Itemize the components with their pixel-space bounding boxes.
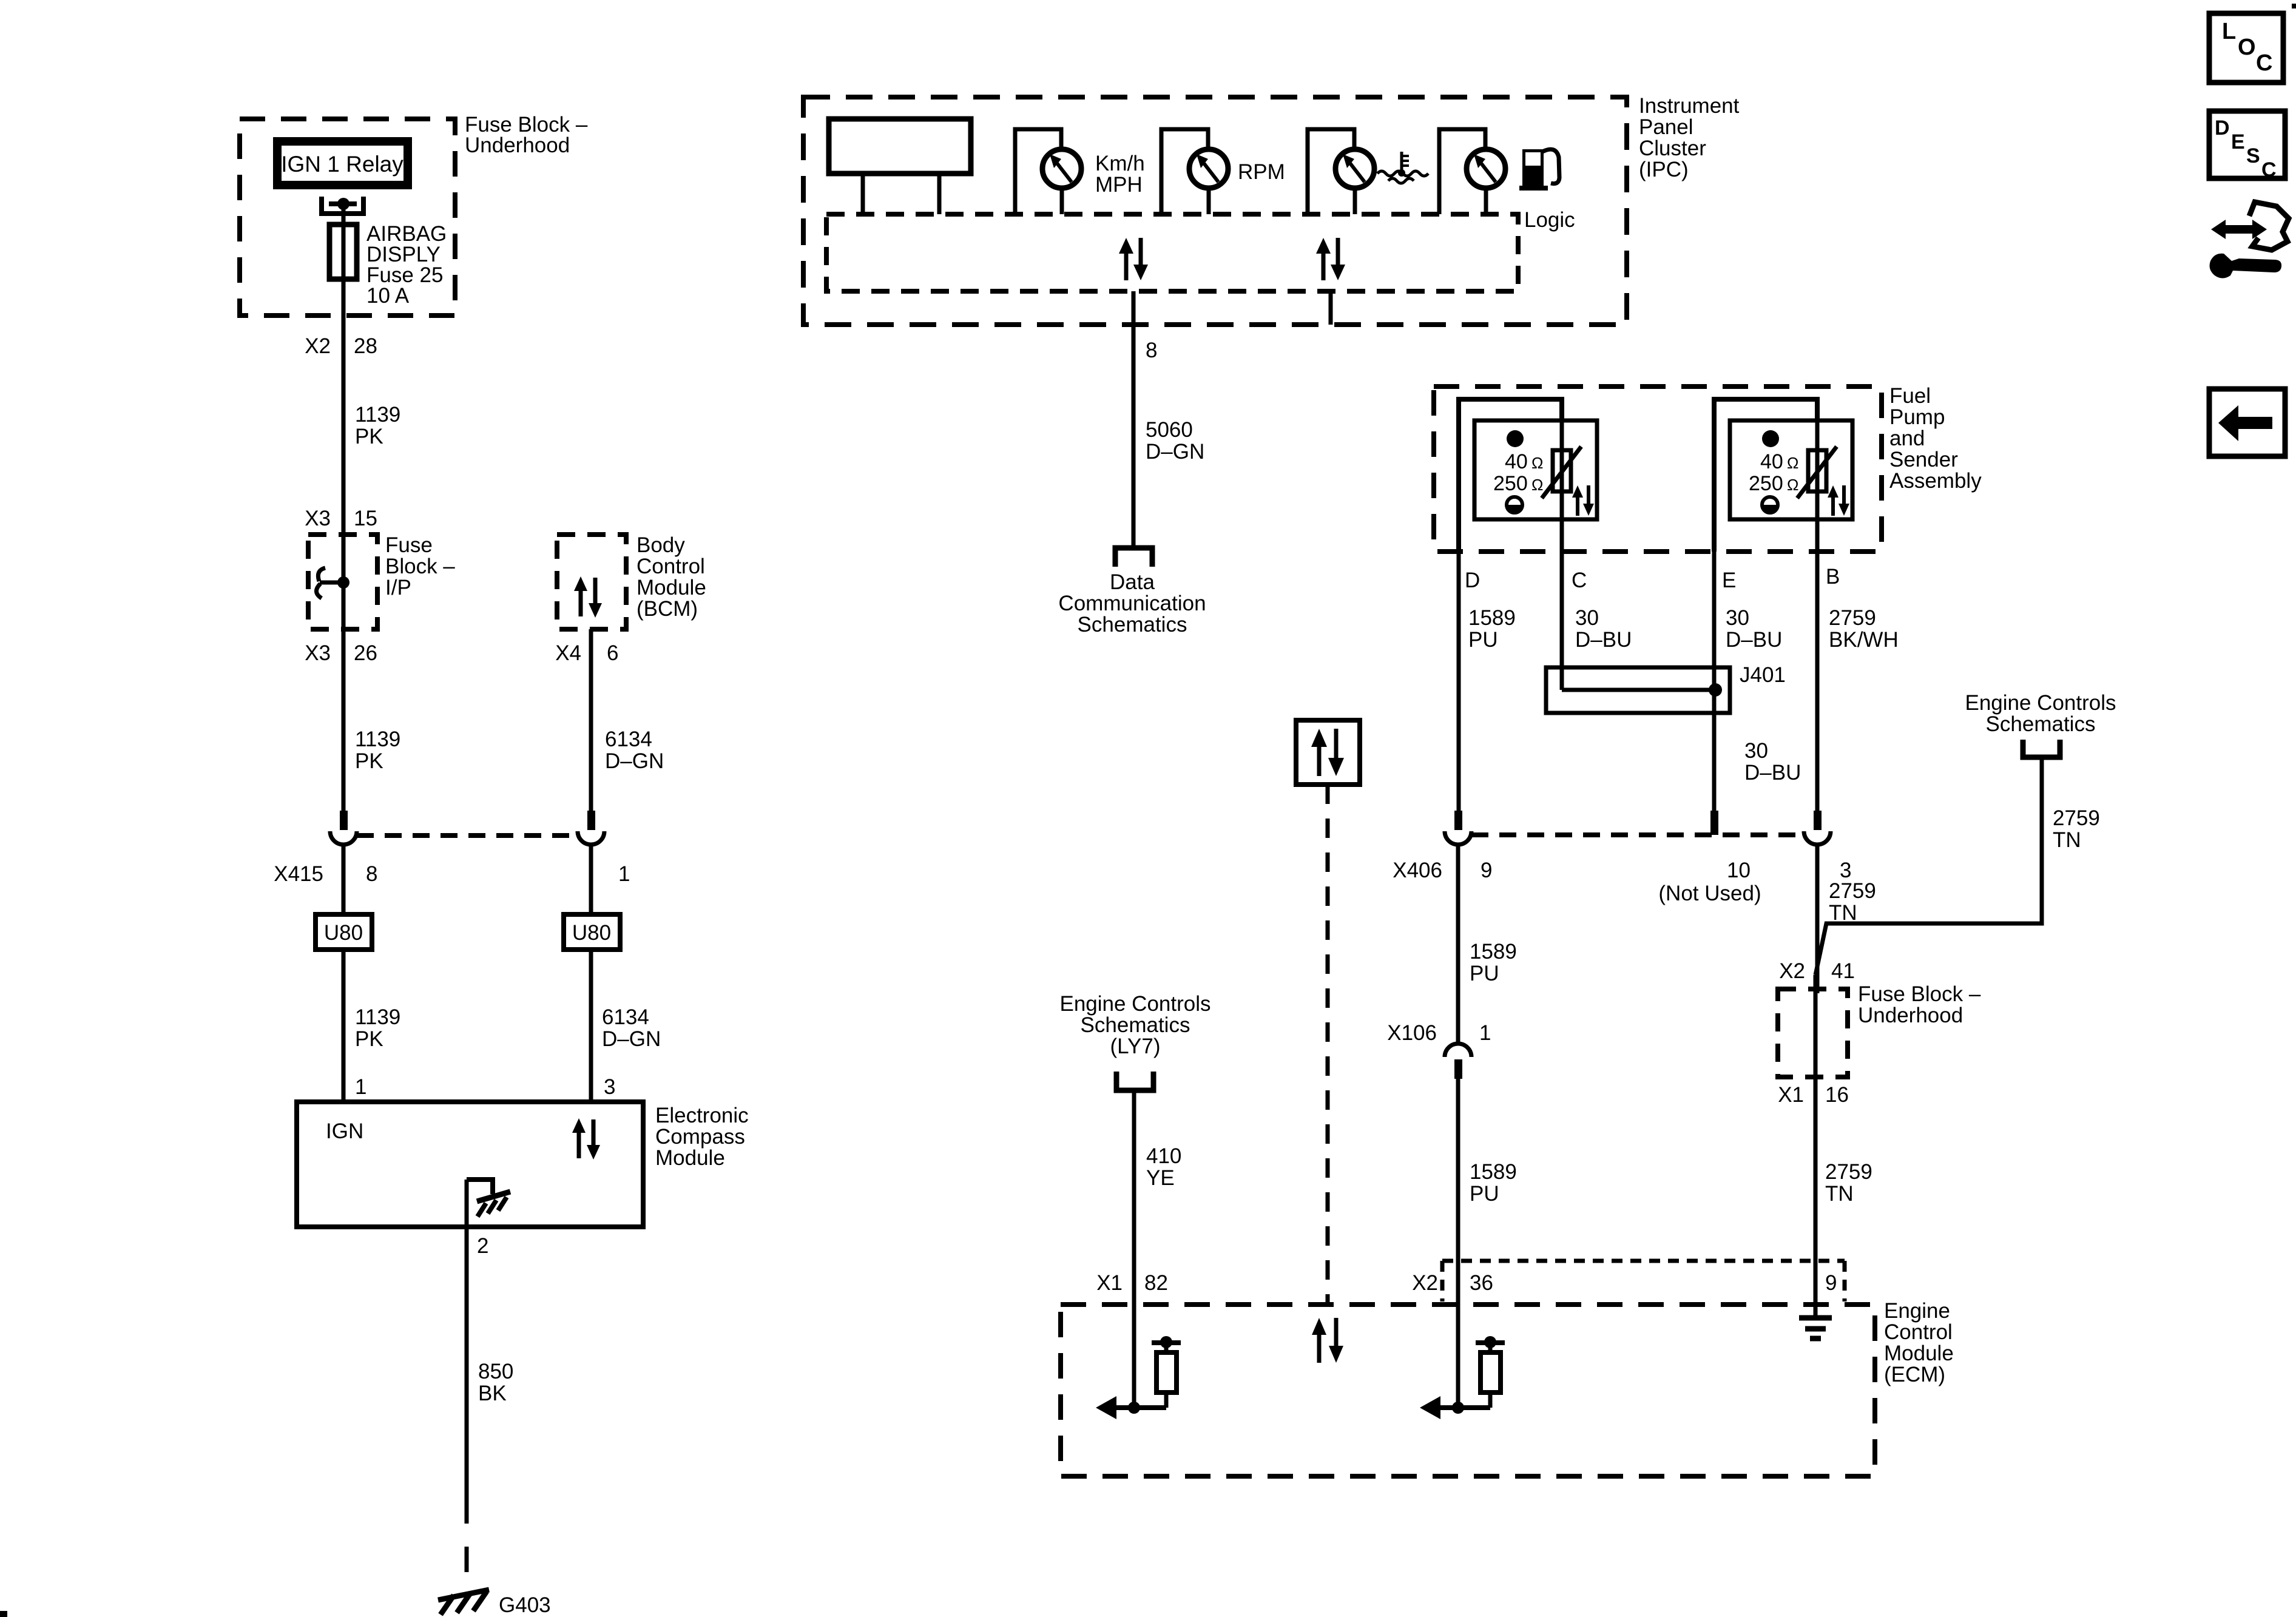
wire 1139 PK to compass xyxy=(342,950,346,1102)
body control module BCM dashed box xyxy=(557,535,626,629)
left sender full mark xyxy=(1507,430,1524,447)
svg-text:C: C xyxy=(1572,569,1587,592)
svg-text:and: and xyxy=(1889,427,1925,450)
label X415 8 xyxy=(274,862,377,886)
wire 850 BK solid xyxy=(465,1180,469,1498)
right sender rheostat xyxy=(1797,420,1837,552)
svg-text:250: 250 xyxy=(1493,472,1528,495)
off-page connector engine controls right xyxy=(2023,740,2060,757)
svg-text:16: 16 xyxy=(1825,1083,1849,1107)
svg-text:IGN 1 Relay: IGN 1 Relay xyxy=(281,152,403,177)
svg-text:Block –: Block – xyxy=(385,555,455,578)
connector X406 pin 3 xyxy=(1804,811,1831,993)
svg-text:Pump: Pump xyxy=(1889,405,1945,429)
inline connector X415 dashed line xyxy=(357,833,578,838)
wire label 2759 BK/WH xyxy=(1829,606,1899,652)
ECM ground at pin 9 xyxy=(1799,1305,1832,1338)
svg-text:Logic: Logic xyxy=(1524,208,1575,232)
connector X415 pin 8 xyxy=(330,811,357,914)
compass serial data arrows xyxy=(572,1118,600,1160)
serial data arrow box xyxy=(1296,720,1360,785)
wire label 2759 TN (upper) xyxy=(1829,879,1876,925)
svg-text:41: 41 xyxy=(1831,959,1855,983)
pin X3 15 xyxy=(305,507,377,530)
svg-text:Data: Data xyxy=(1110,570,1155,594)
pin X3 26 xyxy=(305,641,377,665)
wire 6134 D-GN from BCM xyxy=(589,629,593,812)
LOC icon box xyxy=(2209,13,2283,83)
right sender 250 ohm label xyxy=(1749,472,1798,495)
svg-text:Sender: Sender xyxy=(1889,448,1958,471)
fuse block I/P dashed box xyxy=(308,535,377,629)
svg-text:40: 40 xyxy=(1760,450,1783,473)
wire through fuse block right xyxy=(1814,975,1818,1305)
logic serial arrows right xyxy=(1316,238,1345,280)
svg-text:1: 1 xyxy=(1479,1021,1491,1045)
svg-text:28: 28 xyxy=(354,334,377,358)
fuel pump icon xyxy=(1519,149,1559,191)
svg-text:850: 850 xyxy=(478,1360,513,1383)
svg-text:D–BU: D–BU xyxy=(1575,628,1632,652)
svg-text:410: 410 xyxy=(1146,1144,1181,1168)
left sender rheostat xyxy=(1542,420,1581,552)
left sender arrows xyxy=(1572,485,1594,516)
svg-text:D–BU: D–BU xyxy=(1726,628,1782,652)
svg-text:X106: X106 xyxy=(1387,1021,1437,1045)
svg-text:BK/WH: BK/WH xyxy=(1829,628,1899,652)
svg-text:Engine Controls: Engine Controls xyxy=(1059,992,1210,1016)
svg-text:C: C xyxy=(2261,158,2277,181)
label engine controls schematics (right) xyxy=(1965,691,2116,736)
engine control module ECM dashed box xyxy=(1061,1305,1875,1476)
svg-text:(IPC): (IPC) xyxy=(1639,158,1689,181)
svg-text:Fuse Block –: Fuse Block – xyxy=(1858,982,1981,1006)
svg-text:D–GN: D–GN xyxy=(605,749,664,773)
label engine control module xyxy=(1884,1299,1954,1386)
left sender empty mark xyxy=(1507,497,1522,513)
wire label 6134 D-GN (lower) xyxy=(602,1005,661,1051)
fuse block underhood (right) dashed box xyxy=(1778,989,1848,1077)
splice U80 (left) xyxy=(316,914,372,950)
svg-text:30: 30 xyxy=(1744,739,1768,763)
svg-text:Assembly: Assembly xyxy=(1889,469,1982,493)
svg-text:X3: X3 xyxy=(305,507,331,530)
label body control module xyxy=(636,533,706,621)
connector X406 pin 10 stub not used xyxy=(1710,811,1718,835)
svg-text:O: O xyxy=(2238,35,2256,60)
svg-text:Communication: Communication xyxy=(1058,592,1206,615)
wire label 30 D-BU (below J401) xyxy=(1744,739,1801,785)
wire label 1139 PK (lower) xyxy=(355,1005,400,1051)
svg-text:Module: Module xyxy=(1884,1342,1954,1365)
back arrow icon box xyxy=(2209,389,2285,456)
svg-text:Ω: Ω xyxy=(1531,476,1543,494)
label fuse block underhood xyxy=(465,113,588,157)
wire label 1589 PU (lower) xyxy=(1470,1160,1517,1206)
label instrument panel cluster xyxy=(1639,94,1740,181)
pin X2 41 xyxy=(1779,959,1855,983)
svg-text:Underhood: Underhood xyxy=(465,133,570,157)
svg-text:Control: Control xyxy=(636,555,705,578)
ECM connector dotted outline xyxy=(1442,1261,1845,1301)
corner dot top right xyxy=(2292,4,2296,8)
label X406 9 xyxy=(1393,859,1492,882)
svg-text:Control: Control xyxy=(1884,1320,1953,1344)
instrument panel cluster IPC dashed box xyxy=(803,97,1627,325)
svg-text:(BCM): (BCM) xyxy=(636,597,698,621)
svg-text:X1: X1 xyxy=(1778,1083,1804,1107)
wire label 5060 D-GN xyxy=(1146,418,1204,464)
relay K1 IGN 1 Relay xyxy=(277,141,408,185)
logic dashed box xyxy=(826,214,1518,291)
svg-text:PU: PU xyxy=(1470,1182,1499,1206)
svg-text:(ECM): (ECM) xyxy=(1884,1363,1945,1386)
logic serial arrows left xyxy=(1119,238,1148,280)
wire label 2759 TN (lower) xyxy=(1825,1160,1872,1206)
svg-text:2759: 2759 xyxy=(1829,879,1876,903)
IPC pin 8 wire xyxy=(1132,291,1136,546)
dashed serial data wire to ECM xyxy=(1326,785,1330,1305)
svg-text:2: 2 xyxy=(477,1234,488,1258)
svg-text:Underhood: Underhood xyxy=(1858,1004,1963,1027)
label data communication schematics xyxy=(1058,570,1206,636)
ECM serial data arrows xyxy=(1312,1318,1343,1363)
wire 850 BK dashed to ground xyxy=(465,1498,469,1599)
svg-text:3: 3 xyxy=(604,1075,615,1099)
svg-text:YE: YE xyxy=(1146,1166,1175,1190)
pin X1 16 xyxy=(1778,1083,1849,1107)
label engine controls schematics LY7 xyxy=(1059,992,1210,1058)
svg-text:1139: 1139 xyxy=(355,1005,400,1029)
wire label 1589 PU (mid) xyxy=(1470,940,1517,985)
svg-text:1: 1 xyxy=(355,1075,366,1099)
ECM pull-up resistor left xyxy=(1096,1336,1181,1419)
svg-text:10: 10 xyxy=(1727,859,1751,882)
fuel pump and sender assembly dashed box xyxy=(1434,387,1882,552)
svg-text:RPM: RPM xyxy=(1238,160,1285,184)
svg-text:J401: J401 xyxy=(1740,663,1786,687)
svg-text:2759: 2759 xyxy=(1829,606,1876,630)
svg-text:MPH: MPH xyxy=(1095,173,1143,197)
svg-text:36: 36 xyxy=(1470,1271,1493,1295)
svg-text:82: 82 xyxy=(1144,1271,1168,1295)
svg-text:D–BU: D–BU xyxy=(1744,761,1801,785)
label fuel pump and sender assembly xyxy=(1889,384,1982,493)
pin X1 82 xyxy=(1096,1271,1168,1295)
svg-text:D: D xyxy=(1465,569,1480,592)
svg-text:Schematics: Schematics xyxy=(1986,712,2096,736)
DESC icon box xyxy=(2209,111,2285,181)
left sender unit box xyxy=(1474,420,1597,519)
svg-text:1: 1 xyxy=(618,862,630,886)
svg-text:PK: PK xyxy=(355,749,383,773)
svg-text:Cluster: Cluster xyxy=(1639,137,1706,160)
svg-text:D–GN: D–GN xyxy=(602,1027,661,1051)
corner mark xyxy=(0,1611,7,1617)
wire 410 YE xyxy=(1132,1090,1136,1408)
compass internal ground symbol xyxy=(467,1180,510,1217)
svg-text:Fuse: Fuse xyxy=(385,533,433,557)
label Km/h MPH xyxy=(1095,152,1145,197)
svg-text:PK: PK xyxy=(355,425,383,448)
svg-text:Ω: Ω xyxy=(1787,454,1798,472)
wire label 2759 TN (right) xyxy=(2053,806,2100,852)
wire B 2759 BK/WH down xyxy=(1815,552,1820,812)
svg-text:6134: 6134 xyxy=(602,1005,649,1029)
svg-text:PK: PK xyxy=(355,1027,383,1051)
svg-text:I/P: I/P xyxy=(385,576,411,599)
svg-text:1589: 1589 xyxy=(1470,940,1517,964)
wire 1589 PU mid xyxy=(1456,1007,1460,1044)
tachometer gauge xyxy=(1161,129,1228,214)
svg-text:B: B xyxy=(1826,565,1840,589)
svg-text:X2: X2 xyxy=(305,334,331,358)
ECM pull-up resistor right xyxy=(1420,1336,1505,1419)
svg-text:X2: X2 xyxy=(1779,959,1805,983)
svg-text:40: 40 xyxy=(1505,450,1528,473)
wire label 410 YE xyxy=(1146,1144,1181,1190)
fuse 25 AIRBAG DISPLY xyxy=(329,222,447,308)
wire label 30 D-BU (C) xyxy=(1575,606,1632,652)
svg-text:9: 9 xyxy=(1481,859,1492,882)
svg-text:U80: U80 xyxy=(572,921,611,945)
right fuel sender bracket xyxy=(1714,399,1817,552)
svg-text:U80: U80 xyxy=(324,921,363,945)
temperature gauge xyxy=(1308,129,1374,214)
svg-text:C: C xyxy=(2256,50,2272,76)
svg-text:TN: TN xyxy=(1825,1182,1854,1206)
off-page connector from engine controls xyxy=(1116,1072,1153,1090)
pin X2 28 xyxy=(305,334,377,358)
wire E 30 D-BU down xyxy=(1712,552,1717,811)
svg-text:15: 15 xyxy=(354,507,377,530)
svg-text:1589: 1589 xyxy=(1470,1160,1517,1184)
splice U80 (right) xyxy=(564,914,620,950)
right sender empty mark xyxy=(1762,497,1778,513)
IPC stub wire right xyxy=(1329,291,1333,325)
svg-text:Fuel: Fuel xyxy=(1889,384,1931,408)
label electronic compass module xyxy=(655,1104,749,1170)
svg-text:250: 250 xyxy=(1749,472,1783,495)
label X106 1 xyxy=(1387,1021,1491,1045)
wire label 1139 PK (mid) xyxy=(355,727,400,773)
svg-text:Km/h: Km/h xyxy=(1095,152,1145,175)
splice J401 xyxy=(1546,663,1786,713)
label fuse block I/P xyxy=(385,533,455,599)
connector X406 pin 9 xyxy=(1445,811,1471,1007)
svg-text:1139: 1139 xyxy=(355,403,400,427)
svg-text:2759: 2759 xyxy=(2053,806,2100,830)
svg-text:Module: Module xyxy=(655,1146,725,1170)
svg-text:X2: X2 xyxy=(1412,1271,1438,1295)
svg-text:Engine Controls: Engine Controls xyxy=(1965,691,2116,715)
svg-text:PU: PU xyxy=(1470,962,1499,985)
svg-text:Module: Module xyxy=(636,576,706,599)
svg-text:Ω: Ω xyxy=(1531,454,1543,472)
svg-text:9: 9 xyxy=(1825,1271,1837,1295)
svg-text:(Not Used): (Not Used) xyxy=(1658,882,1761,905)
wire D 1589 PU down xyxy=(1457,552,1461,812)
svg-text:Body: Body xyxy=(636,533,685,557)
svg-text:Compass: Compass xyxy=(655,1125,745,1149)
connector X415 pin 1 xyxy=(578,811,604,914)
off-page connector to data schematics xyxy=(1115,548,1152,567)
wire label 850 BK xyxy=(478,1360,513,1405)
svg-text:8: 8 xyxy=(366,862,377,886)
relay output terminal cup xyxy=(322,197,363,214)
electronic compass module box xyxy=(297,1102,643,1227)
svg-text:6: 6 xyxy=(607,641,618,665)
svg-text:10 A: 10 A xyxy=(366,284,410,308)
fuel gauge xyxy=(1439,129,1505,214)
diagnostic arrow and wrench icon xyxy=(2210,202,2289,279)
left sender 40 ohm label xyxy=(1505,450,1543,473)
svg-text:Panel: Panel xyxy=(1639,115,1693,139)
svg-text:D–GN: D–GN xyxy=(1146,440,1204,464)
label fuse block underhood right xyxy=(1858,982,1981,1027)
wire label 6134 D-GN (upper) xyxy=(605,727,664,773)
left fuel sender bracket xyxy=(1459,399,1562,552)
wire label 1139 PK (upper) xyxy=(355,403,400,448)
svg-text:8: 8 xyxy=(1146,339,1157,362)
wire 1139 PK from relay to X415 xyxy=(342,204,346,812)
connector X106 pin 1 xyxy=(1445,1044,1471,1408)
svg-text:S: S xyxy=(2246,144,2260,167)
wire label 1589 PU (top) xyxy=(1468,606,1516,652)
svg-text:D: D xyxy=(2215,116,2230,140)
svg-text:Instrument: Instrument xyxy=(1639,94,1740,118)
ground G403 xyxy=(438,1590,551,1617)
pin X2 36 xyxy=(1412,1271,1493,1295)
right sender arrows xyxy=(1828,485,1849,516)
svg-text:30: 30 xyxy=(1575,606,1599,630)
svg-text:X406: X406 xyxy=(1393,859,1442,882)
svg-text:Schematics: Schematics xyxy=(1081,1013,1190,1037)
svg-text:(LY7): (LY7) xyxy=(1110,1035,1161,1058)
svg-text:1139: 1139 xyxy=(355,727,400,751)
coolant temperature icon xyxy=(1377,152,1428,183)
svg-text:IGN: IGN xyxy=(326,1119,363,1143)
inline connector X406 dashed line xyxy=(1471,832,1804,837)
svg-text:Ω: Ω xyxy=(1787,476,1798,494)
wire 2759 TN from engine controls xyxy=(1815,757,2042,975)
speedometer gauge xyxy=(1015,129,1081,214)
svg-text:BK: BK xyxy=(478,1382,507,1405)
svg-text:26: 26 xyxy=(354,641,377,665)
svg-text:5060: 5060 xyxy=(1146,418,1193,442)
wire label 30 D-BU (E) xyxy=(1726,606,1782,652)
fuse element in I/P block xyxy=(316,568,349,598)
svg-text:Engine: Engine xyxy=(1884,1299,1950,1323)
IPC display block xyxy=(829,119,971,214)
right sender unit box xyxy=(1730,420,1852,519)
svg-text:TN: TN xyxy=(1829,901,1857,925)
svg-text:PU: PU xyxy=(1468,628,1498,652)
wire 6134 D-GN to compass xyxy=(589,950,593,1102)
svg-text:6134: 6134 xyxy=(605,727,652,751)
svg-text:1589: 1589 xyxy=(1468,606,1516,630)
svg-text:TN: TN xyxy=(2053,828,2081,852)
left sender 250 ohm label xyxy=(1493,472,1543,495)
svg-text:Electronic: Electronic xyxy=(655,1104,749,1127)
svg-text:X3: X3 xyxy=(305,641,331,665)
right sender full mark xyxy=(1762,430,1779,447)
right sender 40 ohm label xyxy=(1760,450,1798,473)
svg-text:X4: X4 xyxy=(555,641,581,665)
svg-text:30: 30 xyxy=(1726,606,1749,630)
fuse block underhood (left) dashed box xyxy=(240,119,455,316)
svg-text:X415: X415 xyxy=(274,862,323,886)
label 10 not used xyxy=(1658,859,1761,905)
svg-text:2759: 2759 xyxy=(1825,1160,1872,1184)
svg-text:G403: G403 xyxy=(499,1593,551,1617)
wire C 30 D-BU down to J401 xyxy=(1560,552,1564,690)
svg-text:E: E xyxy=(1722,569,1736,592)
BCM serial data arrows xyxy=(574,576,602,618)
svg-text:X1: X1 xyxy=(1096,1271,1123,1295)
svg-text:L: L xyxy=(2222,19,2236,44)
svg-text:E: E xyxy=(2231,130,2245,154)
svg-text:Schematics: Schematics xyxy=(1078,613,1187,636)
pin X4 6 xyxy=(555,641,618,665)
